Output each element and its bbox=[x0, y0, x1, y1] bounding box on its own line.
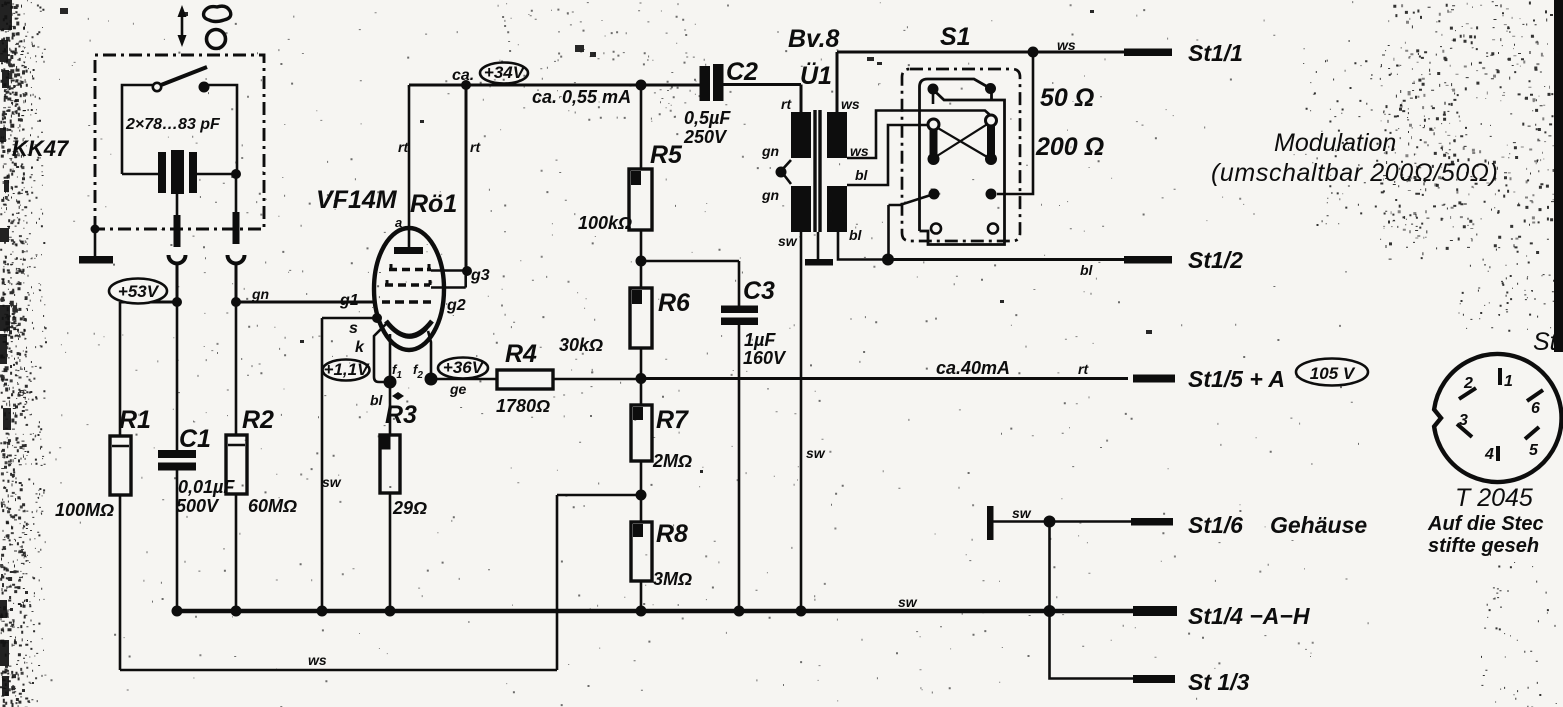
svg-text:+1,1V: +1,1V bbox=[324, 360, 371, 379]
tube VF14M Ro1 envelope bbox=[316, 186, 457, 350]
svg-text:C1: C1 bbox=[179, 425, 211, 453]
svg-text:bl: bl bbox=[849, 227, 863, 243]
switch S1 cover dash-dot bbox=[902, 69, 1020, 241]
wire rail drop to g3 bbox=[465, 85, 468, 271]
note Auf die Steckstifte gesehen bbox=[1427, 513, 1544, 557]
svg-text:St1/2: St1/2 bbox=[1188, 247, 1243, 273]
circle pattern symbol bbox=[207, 30, 226, 49]
svg-text:+53V: +53V bbox=[118, 282, 160, 301]
svg-text:bl: bl bbox=[855, 167, 869, 183]
svg-text:R5: R5 bbox=[650, 141, 683, 169]
svg-text:St1/4 −A−H: St1/4 −A−H bbox=[1188, 603, 1310, 629]
label bl with arrow bbox=[370, 392, 404, 408]
svg-text:250V: 250V bbox=[683, 127, 728, 147]
svg-text:sw: sw bbox=[322, 474, 342, 490]
capacitor C3 bbox=[641, 261, 787, 611]
capsule direction arrow bbox=[178, 5, 187, 47]
switch S1 lower contacts bbox=[929, 189, 997, 200]
terminal St1/3 bbox=[1133, 669, 1250, 695]
voltage oval +53V bbox=[109, 279, 167, 304]
chassis connection Gehaeuse bbox=[987, 505, 1131, 540]
svg-text:ca.40mA: ca.40mA bbox=[936, 358, 1010, 378]
resistor R4 bbox=[496, 340, 553, 416]
ground transformer core bbox=[805, 232, 833, 266]
switch S1 contact stub bbox=[932, 93, 935, 104]
node g3-g2 junction bbox=[462, 266, 472, 276]
svg-text:100kΩ: 100kΩ bbox=[578, 213, 632, 233]
tube filament bbox=[392, 329, 427, 338]
svg-text:0,5µF: 0,5µF bbox=[684, 108, 731, 128]
svg-text:R2: R2 bbox=[242, 406, 274, 434]
switch S1 cross wires bbox=[937, 124, 988, 158]
svg-text:R6: R6 bbox=[658, 289, 691, 317]
svg-text:gn: gn bbox=[761, 143, 779, 159]
svg-text:1780Ω: 1780Ω bbox=[496, 396, 550, 416]
node capsule right terminal bbox=[231, 169, 241, 179]
tube anode bbox=[394, 85, 423, 254]
switch S1 plate outline bbox=[920, 79, 1005, 245]
svg-text:gn: gn bbox=[761, 187, 779, 203]
svg-text:1: 1 bbox=[1504, 373, 1513, 390]
capsule right terminal lead bbox=[233, 174, 240, 244]
svg-text:100MΩ: 100MΩ bbox=[55, 500, 114, 520]
svg-text:Rö1: Rö1 bbox=[410, 190, 457, 218]
svg-text:Auf die Stec: Auf die Stec bbox=[1427, 513, 1544, 535]
wire bus -A-H bbox=[177, 594, 1133, 611]
svg-text:50 Ω: 50 Ω bbox=[1040, 84, 1094, 112]
capsule left terminal lead bbox=[174, 194, 181, 247]
svg-text:5: 5 bbox=[1529, 442, 1539, 459]
capsule dual-membrane capacitor bbox=[158, 150, 197, 194]
capacitor C2 bbox=[683, 58, 758, 147]
node R6-R7 +A bbox=[636, 373, 647, 384]
svg-text:St1/5 + A: St1/5 + A bbox=[1188, 366, 1285, 392]
svg-text:105 V: 105 V bbox=[1310, 364, 1356, 383]
wire switch lower-left contact to St1/2 bbox=[889, 194, 935, 260]
wire St1/6 to bus bbox=[1048, 522, 1051, 612]
svg-text:T 2045: T 2045 bbox=[1455, 484, 1533, 512]
svg-text:R3: R3 bbox=[385, 401, 417, 429]
svg-text:a: a bbox=[395, 215, 402, 230]
T2045 pin numbers bbox=[1459, 373, 1540, 463]
resistor R2 bbox=[226, 302, 297, 611]
switch S1 top contacts bbox=[928, 83, 997, 95]
svg-text:ws: ws bbox=[308, 652, 327, 668]
ground capsule bbox=[79, 225, 113, 264]
voltage oval +1.1V bbox=[323, 360, 371, 381]
svg-text:k: k bbox=[355, 339, 365, 356]
wire bl secondary to St1/2 bbox=[838, 232, 888, 260]
wire left coupling down bbox=[176, 264, 179, 302]
tube shield s bbox=[322, 313, 382, 611]
resistor R7 bbox=[631, 379, 692, 496]
svg-text:Bv.8: Bv.8 bbox=[788, 25, 840, 53]
svg-text:ca.: ca. bbox=[452, 67, 474, 84]
terminal St1/6 bbox=[1131, 512, 1367, 538]
svg-text:ge: ge bbox=[449, 381, 467, 397]
svg-text:30kΩ: 30kΩ bbox=[559, 335, 603, 355]
svg-text:4: 4 bbox=[1484, 446, 1494, 463]
svg-text:bl: bl bbox=[1080, 262, 1094, 278]
svg-text:ws: ws bbox=[1057, 37, 1076, 53]
svg-text:2×78…83 pF: 2×78…83 pF bbox=[125, 116, 221, 133]
terminal St1/5 bbox=[1133, 359, 1368, 393]
svg-text:3MΩ: 3MΩ bbox=[653, 569, 692, 589]
tube grid g1 bbox=[339, 292, 431, 309]
node R7-R8 bbox=[636, 490, 647, 501]
node right coupling bbox=[231, 297, 241, 307]
capsule inner box bbox=[122, 85, 237, 174]
svg-text:g1: g1 bbox=[339, 292, 359, 309]
svg-text:sw: sw bbox=[778, 233, 798, 249]
supply rail +34V bbox=[409, 63, 801, 113]
wire right coupling down bbox=[235, 264, 238, 302]
tube heater lead f2 bbox=[413, 331, 431, 381]
svg-text:C3: C3 bbox=[743, 277, 775, 305]
svg-text:500V: 500V bbox=[176, 496, 220, 516]
node k-f1 bbox=[384, 376, 397, 389]
wire ws to switch wiper right bbox=[847, 111, 990, 159]
tube grid g2 bbox=[385, 271, 466, 314]
omni pattern symbol bbox=[204, 6, 231, 21]
pattern switch S bbox=[153, 67, 210, 93]
svg-text:St: St bbox=[1533, 328, 1558, 356]
resistor R3 bbox=[380, 382, 427, 611]
wire sw transformer to bus bbox=[800, 232, 803, 611]
terminal St1/4 bbox=[1133, 603, 1310, 629]
wire St1/2 line bbox=[888, 258, 1128, 261]
svg-text:ca. 0,55 mA: ca. 0,55 mA bbox=[532, 87, 631, 107]
svg-text:sw: sw bbox=[898, 594, 918, 610]
wire gn to g1 bbox=[236, 301, 376, 304]
switch S1 mounting holes bbox=[931, 224, 998, 234]
terminal St1/2 bbox=[1124, 247, 1243, 273]
svg-text:1µF: 1µF bbox=[744, 330, 776, 350]
wire to St1/3 bbox=[1050, 611, 1134, 679]
svg-text:+36V: +36V bbox=[443, 358, 485, 377]
node St1/1 drop bbox=[1028, 47, 1039, 58]
svg-text:s: s bbox=[349, 320, 358, 337]
svg-text:KK47: KK47 bbox=[12, 136, 70, 161]
tube grid g3 bbox=[389, 264, 490, 284]
svg-text:sw: sw bbox=[1012, 505, 1032, 521]
svg-text:60MΩ: 60MΩ bbox=[248, 496, 297, 516]
terminal St1/1 bbox=[1124, 40, 1243, 66]
svg-text:St1/1: St1/1 bbox=[1188, 40, 1243, 66]
svg-text:ws: ws bbox=[850, 143, 869, 159]
svg-text:stifte geseh: stifte geseh bbox=[1428, 535, 1539, 557]
wire bl to switch wiper left bbox=[847, 125, 928, 185]
svg-text:2: 2 bbox=[1463, 375, 1473, 392]
wire ws secondary to St1/1 bbox=[837, 37, 1128, 112]
voltage oval +36V bbox=[431, 358, 497, 398]
svg-text:g3: g3 bbox=[470, 267, 490, 284]
coupling jack right bbox=[228, 255, 245, 264]
svg-text:rt: rt bbox=[781, 96, 792, 112]
svg-text:VF14M: VF14M bbox=[316, 186, 398, 214]
svg-text:Ü1: Ü1 bbox=[800, 61, 832, 90]
svg-text:6: 6 bbox=[1531, 400, 1540, 417]
svg-text:g2: g2 bbox=[446, 297, 466, 314]
svg-text:St1/6: St1/6 bbox=[1188, 512, 1243, 538]
svg-text:R7: R7 bbox=[656, 406, 689, 434]
svg-text:160V: 160V bbox=[743, 348, 787, 368]
resistor R8 bbox=[631, 495, 692, 611]
svg-text:St 1/3: St 1/3 bbox=[1188, 669, 1250, 695]
svg-text:ws: ws bbox=[841, 96, 860, 112]
bus junction dots bbox=[172, 605, 1056, 617]
connector T2045 bbox=[1434, 354, 1561, 482]
node left coupling bbox=[172, 297, 182, 307]
svg-text:rt: rt bbox=[470, 139, 481, 155]
resistor R1 bbox=[55, 302, 151, 670]
node bl St1/2 bbox=[882, 254, 894, 266]
svg-text:R4: R4 bbox=[505, 340, 537, 368]
svg-text:Gehäuse: Gehäuse bbox=[1270, 512, 1367, 538]
svg-text:200 Ω: 200 Ω bbox=[1035, 133, 1104, 161]
svg-text:R8: R8 bbox=[656, 520, 688, 548]
capsule housing dash-dot box KK47 bbox=[95, 55, 264, 229]
svg-text:sw: sw bbox=[806, 445, 826, 461]
transformer Bv.8 U1 bbox=[761, 25, 869, 249]
wire R4 to +A bbox=[553, 378, 641, 381]
resistor R6 bbox=[559, 261, 691, 379]
svg-text:3: 3 bbox=[1459, 412, 1468, 429]
scan edge bar right bbox=[1554, 0, 1563, 352]
node R5-R6 bbox=[636, 256, 647, 267]
wire ws feedback R1 to R7/R8 bbox=[120, 495, 641, 670]
wire +53V node bbox=[120, 301, 177, 304]
svg-text:C2: C2 bbox=[726, 58, 758, 86]
wire +A line bbox=[641, 358, 1128, 379]
svg-text:rt: rt bbox=[1078, 361, 1089, 377]
switch S1 wiper left bbox=[928, 119, 940, 165]
node f2 bbox=[425, 373, 438, 386]
switch S1 wiper right bbox=[985, 115, 997, 165]
svg-text:rt: rt bbox=[398, 139, 409, 155]
svg-text:2MΩ: 2MΩ bbox=[652, 451, 692, 471]
svg-text:gn: gn bbox=[251, 286, 269, 302]
svg-text:(umschaltbar 200Ω/50Ω): (umschaltbar 200Ω/50Ω) bbox=[1211, 159, 1498, 187]
svg-text:R1: R1 bbox=[119, 406, 151, 434]
wire S1 50ohm drop bbox=[997, 52, 1033, 194]
capacitor C1 bbox=[158, 302, 235, 611]
coupling jack left bbox=[169, 255, 186, 264]
svg-text:S1: S1 bbox=[940, 23, 971, 51]
resistor R5 bbox=[578, 85, 683, 261]
svg-text:bl: bl bbox=[370, 392, 384, 408]
svg-text:29Ω: 29Ω bbox=[392, 498, 427, 518]
tube cathode bbox=[386, 321, 432, 336]
node St1/6 drop bbox=[1044, 516, 1056, 528]
tube cathode lead k bbox=[355, 324, 390, 382]
tube heater lead f1 bbox=[390, 334, 402, 382]
